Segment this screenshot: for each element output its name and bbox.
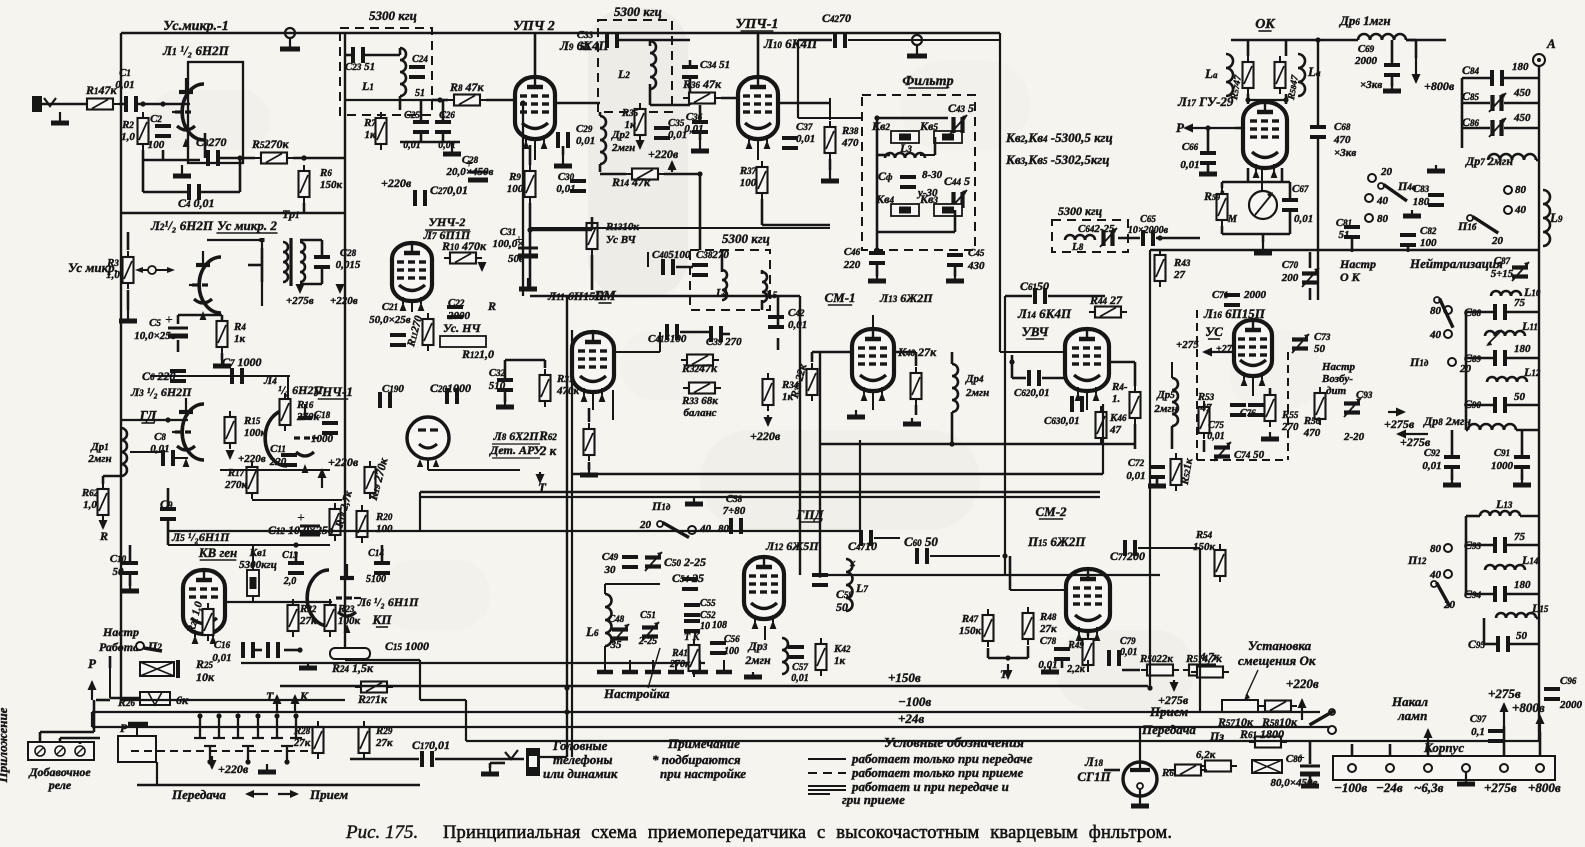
junction bbox=[1245, 97, 1250, 102]
relay P armature bar bbox=[128, 724, 148, 736]
svg-text:Настр: Настр bbox=[1339, 257, 1376, 271]
capacitor C96 bbox=[1544, 689, 1560, 699]
wire bbox=[757, 33, 760, 77]
capacitor C55 bbox=[684, 605, 700, 615]
switch P1b wafer bbox=[1467, 215, 1498, 233]
wire bbox=[1134, 424, 1137, 449]
svg-text:С8: С8 bbox=[154, 431, 166, 443]
svg-text:150к: 150к bbox=[959, 625, 982, 637]
supply arrow P arrow left bbox=[1183, 124, 1235, 133]
BM tank box (dashed box) bbox=[690, 250, 770, 310]
trimmer capacitor C74 bbox=[1214, 442, 1231, 461]
trimmer capacitor C87 bbox=[1512, 262, 1529, 281]
wire bbox=[721, 268, 724, 272]
svg-text:80: 80 bbox=[1515, 184, 1527, 196]
wire bbox=[600, 173, 626, 176]
wire bbox=[321, 240, 324, 256]
capacitor C91 bbox=[1514, 457, 1530, 467]
svg-text:470: 470 bbox=[841, 137, 859, 149]
wire bbox=[167, 488, 170, 508]
wire bbox=[761, 199, 764, 225]
wire bbox=[121, 419, 188, 421]
svg-text:С84: С84 bbox=[1462, 63, 1480, 77]
quartz crystal KV3 bbox=[934, 204, 962, 216]
tube L5 1/2 6N1P bbox=[183, 570, 225, 644]
label R37 value bbox=[739, 165, 757, 189]
wire bbox=[1139, 727, 1141, 762]
svg-text:R121,0: R121,0 bbox=[461, 347, 494, 361]
terminal term +800v bbox=[1536, 764, 1544, 772]
svg-text:1,0: 1,0 bbox=[121, 131, 135, 143]
svg-text:R17: R17 bbox=[227, 467, 245, 479]
svg-text:R49: R49 bbox=[1067, 640, 1084, 651]
svg-text:5÷15: 5÷15 bbox=[1491, 268, 1514, 280]
wire bbox=[1042, 377, 1066, 380]
svg-text:или динамик: или динамик bbox=[543, 766, 618, 781]
wire bbox=[876, 264, 879, 276]
wire bbox=[168, 530, 860, 532]
trimmer capacitor C44 bbox=[950, 190, 967, 209]
junction bbox=[520, 100, 525, 105]
junction bbox=[237, 155, 242, 160]
electrolytic capacitor C12x bbox=[297, 511, 320, 534]
wire bbox=[1252, 377, 1254, 396]
capacitor C67 bbox=[1282, 200, 1298, 210]
label C16 value bbox=[212, 639, 231, 664]
svg-text:20: 20 bbox=[639, 519, 652, 531]
wire bbox=[699, 174, 702, 250]
wire bbox=[1317, 138, 1319, 300]
tube L9 6K4P bbox=[515, 77, 555, 149]
trimmer capacitor C93 bbox=[1344, 398, 1361, 417]
junction bbox=[564, 709, 569, 714]
label C80 value bbox=[1271, 753, 1318, 789]
svg-text:Л10 6К4П: Л10 6К4П bbox=[763, 36, 818, 51]
wire bbox=[1462, 77, 1490, 80]
wire bbox=[303, 203, 306, 213]
wire bbox=[103, 475, 121, 478]
label Nastr OK bbox=[1339, 257, 1376, 284]
wire bbox=[1104, 769, 1120, 772]
wire bbox=[1010, 589, 1066, 591]
resistor R8 bbox=[448, 95, 486, 106]
wire bbox=[676, 266, 693, 269]
capacitor C24 bbox=[409, 67, 425, 77]
wire bbox=[1451, 468, 1454, 480]
svg-text:УНЧ-1: УНЧ-1 bbox=[313, 384, 353, 399]
wire bbox=[1203, 440, 1206, 452]
svg-text:2,2к: 2,2к bbox=[1066, 664, 1086, 675]
wire bbox=[59, 738, 62, 742]
label R56 value bbox=[1303, 415, 1321, 439]
resistor R48 bbox=[1023, 607, 1034, 645]
wire bbox=[1207, 128, 1210, 152]
label R28 value bbox=[293, 725, 311, 749]
wire bbox=[762, 224, 830, 227]
capacitor C39 bbox=[711, 326, 721, 342]
wire bbox=[1507, 357, 1539, 360]
wire bbox=[381, 545, 384, 552]
tube L16 6P15P bbox=[1234, 320, 1272, 386]
junction bbox=[949, 441, 954, 446]
resistor R33 bbox=[683, 383, 721, 394]
wire bbox=[1285, 94, 1288, 104]
svg-text:С87: С87 bbox=[1494, 255, 1511, 267]
capacitor C49 bbox=[622, 557, 638, 567]
resistor R10 bbox=[444, 253, 482, 264]
electrolytic capacitor C31 bbox=[515, 233, 538, 256]
ground ground under C29 bbox=[554, 155, 572, 166]
wire bbox=[213, 239, 262, 241]
svg-text:К46: К46 bbox=[1109, 412, 1127, 424]
resistor R61 bbox=[1249, 737, 1287, 748]
L8 tank box (dashed box) bbox=[1052, 220, 1128, 252]
svg-text:+: + bbox=[165, 313, 173, 328]
capacitor C66 bbox=[1200, 153, 1216, 163]
svg-text:1к: 1к bbox=[234, 333, 246, 345]
svg-text:L7: L7 bbox=[855, 581, 868, 595]
svg-text:+800в: +800в bbox=[1528, 780, 1561, 795]
capacitor C84 bbox=[1492, 70, 1502, 86]
wire bbox=[427, 459, 429, 470]
wire bbox=[1247, 94, 1250, 104]
svg-text:Передача: Передача bbox=[171, 787, 226, 802]
relay contact R25 (X box) bbox=[140, 660, 178, 678]
wire bbox=[284, 649, 300, 652]
wire bbox=[877, 117, 948, 120]
supply arrow +220 bias bbox=[1298, 698, 1307, 720]
svg-text:С68: С68 bbox=[1334, 121, 1351, 133]
svg-text:Р: Р bbox=[88, 656, 97, 671]
capacitor C13 bbox=[288, 563, 304, 573]
svg-text:Добавочное: Добавочное bbox=[28, 765, 91, 779]
inductor Dr2 choke bbox=[600, 116, 606, 164]
label C91 value bbox=[1491, 447, 1514, 472]
svg-text:С76: С76 bbox=[1240, 408, 1256, 419]
electrolytic capacitor C28 bbox=[465, 157, 488, 180]
wire bbox=[465, 700, 467, 741]
terminal P1v 80 bbox=[1444, 306, 1452, 314]
label K42 value bbox=[833, 643, 851, 667]
wire bbox=[591, 217, 594, 230]
terminal P2 term bbox=[136, 642, 144, 650]
wire bbox=[544, 360, 547, 368]
wire bbox=[127, 290, 130, 310]
wire bbox=[1466, 544, 1493, 547]
label C58 value bbox=[723, 493, 746, 517]
svg-text:35: 35 bbox=[610, 639, 623, 651]
capacitor C32 bbox=[497, 380, 513, 390]
wire bbox=[872, 315, 874, 330]
label C42b value bbox=[788, 307, 807, 331]
capacitor C30 bbox=[570, 181, 586, 191]
junction bbox=[140, 101, 145, 106]
svg-text:0,01: 0,01 bbox=[556, 183, 575, 195]
supply arrow +275v feed bbox=[296, 284, 305, 294]
resistor R6 bbox=[299, 165, 310, 203]
terminal per term bbox=[1328, 726, 1336, 734]
wire bbox=[466, 740, 1540, 742]
resistor R60 bbox=[1199, 761, 1237, 772]
label C68 value bbox=[1333, 121, 1351, 146]
resistor R1 bbox=[81, 99, 119, 110]
ground gnd Dr3 bbox=[744, 672, 762, 677]
inductor L1 coil bbox=[400, 48, 406, 96]
svg-text:R55: R55 bbox=[1281, 409, 1299, 421]
svg-text:КВ ген: КВ ген bbox=[198, 545, 238, 560]
relay contact lower 2 bbox=[242, 746, 254, 765]
resistor R20 bbox=[357, 505, 368, 543]
capacitor C35 bbox=[654, 128, 670, 138]
wire bbox=[761, 300, 764, 310]
resistor R50 bbox=[1141, 665, 1179, 676]
wire bbox=[534, 139, 536, 160]
resistor R3 bbox=[123, 251, 134, 289]
svg-text:×3кв: ×3кв bbox=[1334, 147, 1356, 159]
wire bbox=[1061, 660, 1064, 668]
wire bbox=[680, 331, 710, 334]
svg-text:Рис. 175.: Рис. 175. bbox=[345, 822, 418, 843]
svg-text:0,015: 0,015 bbox=[336, 259, 361, 271]
label block title ГПД bbox=[796, 507, 825, 522]
svg-text:К42: К42 bbox=[833, 643, 851, 655]
wire bbox=[1231, 39, 1340, 41]
svg-text:А: А bbox=[1546, 36, 1556, 51]
capacitor C14 bbox=[374, 563, 390, 573]
label R3 value bbox=[106, 257, 120, 281]
svg-text:С78: С78 bbox=[1040, 635, 1057, 647]
label C28 value bbox=[336, 247, 361, 271]
wire bbox=[522, 103, 524, 296]
svg-text:1к: 1к bbox=[364, 129, 376, 141]
svg-text:5300 кгц: 5300 кгц bbox=[1058, 204, 1103, 218]
label R23 value bbox=[337, 603, 361, 627]
svg-text:−100в: −100в bbox=[1334, 780, 1367, 795]
wire bbox=[1427, 740, 1430, 756]
capacitor C27 bbox=[415, 190, 425, 206]
label C21 value bbox=[369, 301, 411, 326]
ground ground under C69 bbox=[1383, 80, 1401, 91]
terminal strip (Dobavochnoe rele) bbox=[28, 742, 94, 760]
svg-text:Л14 6К4П: Л14 6К4П bbox=[1017, 306, 1072, 321]
svg-text:R23: R23 bbox=[337, 603, 355, 615]
junction bbox=[165, 417, 170, 422]
svg-text:Р: Р bbox=[1176, 120, 1185, 135]
wire bbox=[420, 133, 423, 142]
svg-text:1к: 1к bbox=[834, 655, 846, 667]
wire bbox=[1462, 127, 1490, 130]
svg-text:С72: С72 bbox=[1128, 457, 1145, 469]
wire bbox=[204, 133, 207, 158]
label R53 value bbox=[1197, 391, 1215, 414]
svg-text:R16: R16 bbox=[296, 399, 314, 411]
svg-text:51: 51 bbox=[580, 41, 591, 53]
capacitor C17 bbox=[422, 751, 432, 767]
capacitor C77 bbox=[1125, 540, 1135, 556]
capacitor C81 bbox=[1344, 227, 1360, 237]
wire bbox=[588, 462, 591, 470]
label C72 value bbox=[1126, 457, 1145, 482]
capacitor C11 bbox=[281, 455, 297, 465]
inductor L15 coil bbox=[1496, 613, 1536, 618]
svg-text:С91: С91 bbox=[1494, 447, 1510, 459]
resistor R47 bbox=[983, 609, 994, 647]
resistor R4 bbox=[217, 315, 228, 353]
wire bbox=[1012, 377, 1026, 380]
legend double line bbox=[808, 786, 846, 794]
svg-text:L10: L10 bbox=[1523, 285, 1541, 299]
wire bbox=[137, 784, 420, 786]
svg-text:ГД: ГД bbox=[139, 409, 157, 424]
wire bbox=[1156, 237, 1200, 240]
capacitor C78 bbox=[1054, 649, 1070, 659]
inductor Dr3 choke bbox=[782, 638, 788, 674]
wire bbox=[915, 352, 918, 366]
svg-text:0,1: 0,1 bbox=[1471, 726, 1485, 738]
svg-text:+220в: +220в bbox=[750, 429, 781, 443]
label C57 value bbox=[791, 662, 809, 684]
trimmer capacitor C43 bbox=[950, 115, 967, 134]
svg-text:О К: О К bbox=[1340, 270, 1361, 284]
quartz crystal KV4 bbox=[891, 204, 919, 216]
Ус.НЧ potentiometer bbox=[440, 336, 486, 347]
relay contact group 3 bbox=[232, 713, 244, 738]
wire bbox=[345, 659, 420, 661]
svg-text:С31: С31 bbox=[500, 226, 516, 238]
wire bbox=[1466, 311, 1493, 314]
resistor R68 bbox=[1169, 765, 1207, 776]
svg-text:20: 20 bbox=[1380, 166, 1393, 178]
svg-text:R61 1800: R61 1800 bbox=[1239, 727, 1284, 741]
svg-text:+220в: +220в bbox=[328, 455, 359, 469]
switch reception switch bbox=[1309, 709, 1335, 725]
wire bbox=[1118, 237, 1140, 240]
svg-text:С71: С71 bbox=[1212, 289, 1228, 301]
label R4 value bbox=[233, 321, 246, 345]
label R47 value bbox=[959, 613, 982, 637]
svg-text:2мгн: 2мгн bbox=[87, 453, 111, 465]
label R43 value bbox=[1173, 257, 1191, 281]
label R62b value bbox=[538, 428, 557, 458]
wire bbox=[1262, 234, 1265, 242]
resistor R62a bbox=[98, 483, 109, 521]
terminal P1v 40 bbox=[1444, 330, 1452, 338]
wire bbox=[364, 54, 400, 57]
svg-text:0,01: 0,01 bbox=[1207, 431, 1225, 442]
svg-text:П1д: П1д bbox=[1409, 355, 1429, 369]
wire bbox=[110, 697, 140, 700]
svg-text:ламп: ламп bbox=[1397, 708, 1427, 723]
wire bbox=[530, 227, 830, 229]
wire bbox=[1503, 726, 1506, 756]
svg-text:С190: С190 bbox=[382, 383, 404, 395]
svg-text:С60 50: С60 50 bbox=[904, 534, 938, 549]
svg-text:R54: R54 bbox=[1195, 529, 1213, 541]
wire bbox=[1507, 311, 1539, 314]
capacitor C46 bbox=[869, 253, 885, 263]
svg-text:Др5: Др5 bbox=[1156, 389, 1175, 401]
svg-text:2мгн: 2мгн bbox=[965, 387, 989, 399]
ground gnd C32 bbox=[496, 396, 514, 407]
supply arrow R15 down bbox=[226, 450, 235, 460]
capacitor C23 bbox=[353, 47, 363, 63]
svg-text:−24в: −24в bbox=[1376, 780, 1403, 795]
capacitor C41 bbox=[667, 324, 677, 340]
svg-text:телефоны: телефоны bbox=[553, 752, 613, 767]
relay contact group 2 bbox=[213, 713, 225, 738]
junction bbox=[1147, 685, 1152, 690]
wire bbox=[529, 230, 532, 290]
label C49 value bbox=[602, 551, 619, 576]
resistor R15 bbox=[225, 411, 236, 449]
wire bbox=[915, 405, 918, 415]
wire bbox=[650, 104, 690, 107]
wire bbox=[1466, 593, 1493, 596]
trimmer capacitor C50 bbox=[645, 552, 662, 571]
label R25 value bbox=[195, 657, 215, 684]
svg-text:100: 100 bbox=[507, 183, 524, 195]
svg-text:С3270: С3270 bbox=[196, 135, 227, 149]
svg-text:УВЧ: УВЧ bbox=[1022, 324, 1050, 339]
svg-text:4,7к: 4,7к bbox=[1199, 651, 1220, 663]
capacitor C8 bbox=[163, 450, 173, 466]
switch P1v wafer bbox=[1434, 297, 1453, 328]
svg-text:30: 30 bbox=[604, 564, 617, 576]
wire bbox=[761, 270, 764, 274]
svg-text:20: 20 bbox=[1459, 363, 1472, 375]
label C79 value bbox=[1120, 636, 1138, 658]
relay contact lower 1 bbox=[204, 746, 216, 765]
svg-text:75: 75 bbox=[1514, 297, 1526, 309]
wire bbox=[344, 33, 346, 660]
wire bbox=[93, 700, 96, 732]
wire bbox=[220, 469, 330, 471]
svg-text:Накал: Накал bbox=[1391, 694, 1428, 709]
svg-text:6,2к: 6,2к bbox=[1196, 749, 1216, 761]
svg-text:С70: С70 bbox=[1282, 259, 1299, 271]
trimmer capacitor C86 bbox=[1489, 118, 1506, 137]
svg-text:27к: 27к bbox=[1039, 623, 1057, 635]
wire bbox=[930, 555, 1000, 557]
wire bbox=[988, 657, 1028, 660]
svg-text:+275в: +275в bbox=[1384, 417, 1415, 431]
svg-text:С69: С69 bbox=[1358, 43, 1375, 55]
supply arrow K up bbox=[291, 694, 300, 712]
resistor R44 bbox=[1089, 307, 1127, 318]
ground cathode ground L1 bbox=[173, 165, 191, 176]
svg-text:С18: С18 bbox=[314, 409, 331, 421]
wire bbox=[562, 146, 565, 155]
svg-text:С22: С22 bbox=[448, 297, 465, 309]
wire bbox=[143, 159, 200, 162]
label R48 value bbox=[1039, 611, 1057, 635]
svg-text:27к: 27к bbox=[293, 737, 311, 749]
capacitor C63 bbox=[1072, 396, 1082, 412]
L11 slider arrow bbox=[1486, 330, 1502, 346]
svg-text:R48: R48 bbox=[1039, 611, 1057, 623]
label block title Фильтр bbox=[902, 74, 953, 89]
wire bbox=[954, 266, 957, 276]
svg-text:Сф: Сф bbox=[878, 169, 893, 183]
wire bbox=[1087, 660, 1089, 672]
wire bbox=[489, 763, 492, 768]
antenna terminal A bbox=[1533, 54, 1545, 66]
resistor R23 bbox=[325, 599, 336, 637]
svg-text:ОК: ОК bbox=[1255, 17, 1276, 32]
junction bbox=[1315, 37, 1320, 42]
wire bbox=[599, 164, 602, 172]
wire bbox=[664, 173, 700, 176]
